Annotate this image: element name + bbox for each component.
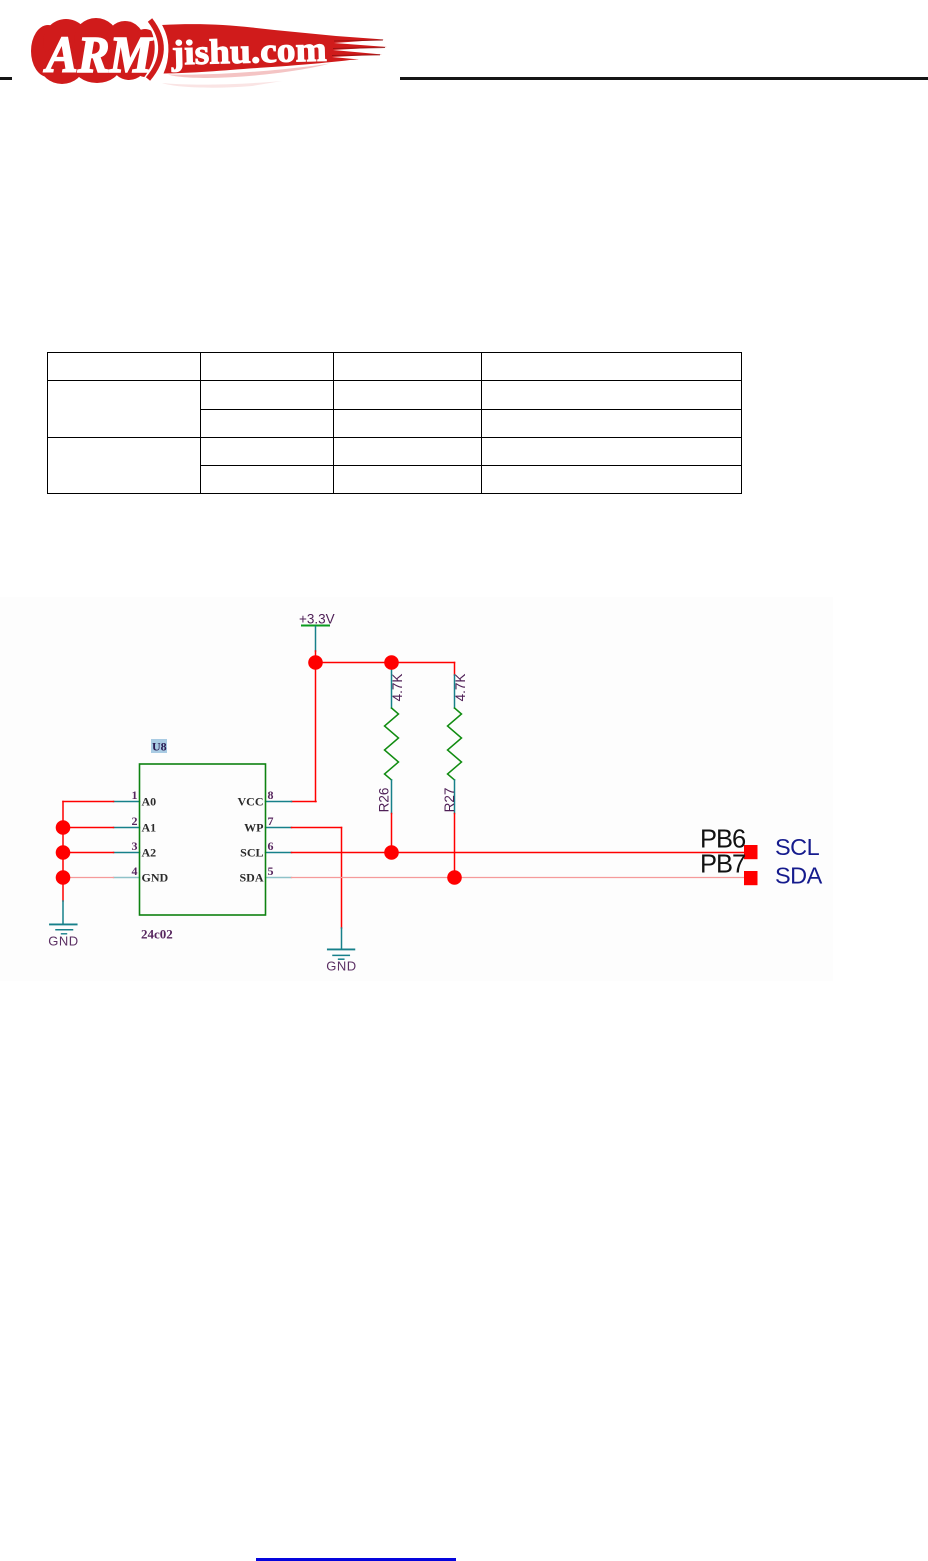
- svg-text:PB6: PB6: [700, 826, 746, 854]
- svg-text:GND: GND: [48, 934, 78, 949]
- svg-text:U8: U8: [152, 740, 167, 754]
- svg-text:8: 8: [268, 788, 274, 802]
- svg-text:SDA: SDA: [239, 871, 263, 885]
- svg-text:WP: WP: [244, 821, 263, 835]
- svg-text:+3.3V: +3.3V: [299, 612, 335, 627]
- svg-text:5: 5: [268, 864, 274, 878]
- svg-text:R26: R26: [377, 788, 392, 813]
- svg-text:A1: A1: [142, 821, 157, 835]
- svg-text:GND: GND: [326, 958, 356, 973]
- svg-text:ARM: ARM: [43, 27, 153, 84]
- svg-text:2: 2: [132, 814, 138, 828]
- svg-text:SDA: SDA: [775, 863, 823, 889]
- svg-text:4.7K: 4.7K: [453, 674, 468, 702]
- svg-text:A2: A2: [142, 846, 157, 860]
- svg-text:4: 4: [132, 864, 138, 878]
- svg-text:VCC: VCC: [238, 795, 264, 809]
- svg-text:1: 1: [132, 788, 138, 802]
- svg-text:R27: R27: [442, 788, 457, 813]
- svg-text:3: 3: [132, 839, 138, 853]
- svg-text:7: 7: [268, 814, 274, 828]
- svg-text:6: 6: [268, 839, 274, 853]
- svg-text:SCL: SCL: [240, 846, 263, 860]
- svg-text:SCL: SCL: [775, 834, 820, 860]
- svg-text:24c02: 24c02: [141, 927, 173, 942]
- svg-text:jishu.com: jishu.com: [170, 30, 327, 73]
- svg-text:GND: GND: [142, 871, 169, 885]
- svg-text:4.7K: 4.7K: [390, 674, 405, 702]
- svg-text:PB7: PB7: [700, 851, 745, 879]
- svg-text:A0: A0: [142, 795, 157, 809]
